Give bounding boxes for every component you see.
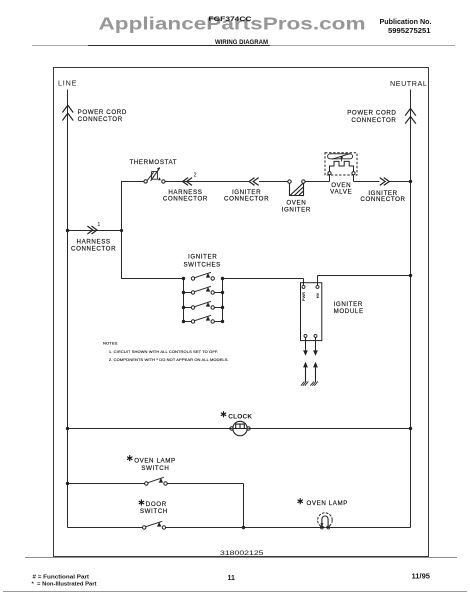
- svg-text:318002125: 318002125: [220, 550, 264, 557]
- wire module to neutral: [318, 274, 413, 277]
- svg-text:NOTES:: NOTES:: [103, 340, 119, 345]
- igniter switch SW2: [191, 286, 214, 294]
- wire switch bus row: [121, 278, 304, 280]
- diagram border frame: [54, 68, 429, 557]
- oven valve: [325, 153, 357, 196]
- svg-text:IGNITER: IGNITER: [188, 254, 217, 261]
- svg-text:SWITCH: SWITCH: [140, 508, 168, 515]
- harness connector 2: [163, 172, 208, 202]
- harness connector 1: [71, 222, 116, 253]
- svg-text:SWITCHES: SWITCHES: [183, 262, 220, 269]
- footer rule upper: [25, 557, 457, 559]
- clock: [221, 411, 253, 436]
- svg-text:LINE: LINE: [58, 78, 77, 87]
- svg-text:OVEN LAMP: OVEN LAMP: [307, 500, 349, 507]
- svg-text:CONNECTOR: CONNECTOR: [224, 196, 269, 203]
- footer legend: [32, 575, 97, 588]
- svg-text:Publication No.: Publication No.: [380, 19, 432, 26]
- wire clock row: [66, 427, 412, 430]
- svg-text:FGF374CC: FGF374CC: [209, 16, 252, 23]
- svg-text:NEUTRAL: NEUTRAL: [390, 79, 427, 88]
- publication number: [380, 19, 432, 35]
- svg-text:IGNITER: IGNITER: [282, 207, 311, 214]
- svg-text:PWR: PWR: [301, 292, 306, 301]
- svg-text:5995275251: 5995275251: [388, 28, 431, 35]
- oven lamp: [298, 498, 349, 529]
- node LINE label: [58, 78, 77, 87]
- oven lamp switch: [145, 477, 168, 485]
- oven igniter: [282, 180, 311, 214]
- igniter connector (right): [360, 178, 405, 204]
- watermark AppliancePartsPros.com: [99, 13, 366, 33]
- wire LINE bus vertical: [67, 90, 69, 528]
- svg-text:1: 1: [98, 222, 101, 228]
- svg-text:OVEN: OVEN: [286, 199, 306, 206]
- svg-text:POWER CORD: POWER CORD: [347, 110, 396, 117]
- wire door switch row: [68, 527, 411, 529]
- part number 318002125: [220, 550, 264, 557]
- svg-text:SWITCH: SWITCH: [141, 465, 169, 472]
- svg-text:HARNESS: HARNESS: [77, 239, 111, 246]
- header rule: [32, 45, 455, 47]
- wire harness row: [66, 229, 123, 232]
- junction dots on switch buses: [182, 277, 185, 280]
- igniter switch SW1: [191, 272, 214, 280]
- svg-text:# = Functional Part: # = Functional Part: [33, 575, 90, 581]
- footer date: [412, 573, 431, 580]
- svg-text:HV: HV: [315, 292, 320, 298]
- igniter connector (left): [224, 178, 269, 203]
- spark electrode arrows: [301, 337, 318, 385]
- svg-text:CONNECTOR: CONNECTOR: [360, 196, 405, 203]
- wire thermostat row: [121, 180, 412, 183]
- svg-text:11/95: 11/95: [412, 573, 431, 580]
- igniter switch SW3: [191, 301, 214, 309]
- svg-text:CONNECTOR: CONNECTOR: [351, 117, 396, 124]
- wire riser left: [121, 182, 123, 279]
- igniter switch SW4: [191, 315, 214, 323]
- oven lamp switch label: [127, 455, 176, 472]
- wire oven lamp switch row: [66, 482, 245, 529]
- svg-text:THERMOSTAT: THERMOSTAT: [129, 159, 177, 166]
- svg-text:OVEN LAMP: OVEN LAMP: [134, 458, 176, 465]
- node NEUTRAL label: [390, 79, 427, 88]
- svg-text:MODULE: MODULE: [334, 308, 364, 315]
- power cord connector (neutral side): [347, 109, 416, 124]
- title WIRING DIAGRAM: [215, 39, 268, 46]
- door switch: [143, 521, 166, 529]
- footer page number: [228, 575, 236, 582]
- power cord connector (line side): [62, 105, 127, 123]
- svg-text:CONNECTOR: CONNECTOR: [71, 246, 116, 253]
- door switch label: [139, 499, 168, 515]
- notes: [103, 340, 229, 362]
- igniter switches: [182, 272, 224, 323]
- model number: [209, 16, 252, 23]
- wire NEUTRAL bus vertical: [410, 90, 412, 528]
- igniter module: [301, 276, 364, 341]
- svg-text:1. CIRCUIT SHOWN WITH ALL CONT: 1. CIRCUIT SHOWN WITH ALL CONTROLS SET T…: [109, 349, 218, 354]
- svg-text:2. COMPONENTS WITH * DO NOT AP: 2. COMPONENTS WITH * DO NOT APPEAR ON AL…: [109, 357, 229, 362]
- svg-text:VALVE: VALVE: [330, 189, 352, 196]
- footer rule lower: [3, 591, 467, 593]
- svg-text:* = Non-Illustrated Part: * = Non-Illustrated Part: [32, 581, 97, 587]
- svg-text:2: 2: [194, 172, 197, 178]
- igniter switches label: [183, 254, 220, 269]
- svg-text:CONNECTOR: CONNECTOR: [163, 196, 208, 203]
- thermostat: [129, 159, 177, 183]
- svg-text:11: 11: [228, 575, 236, 582]
- svg-text:CLOCK: CLOCK: [228, 413, 252, 420]
- svg-text:DOOR: DOOR: [146, 501, 167, 508]
- svg-text:CONNECTOR: CONNECTOR: [78, 116, 123, 123]
